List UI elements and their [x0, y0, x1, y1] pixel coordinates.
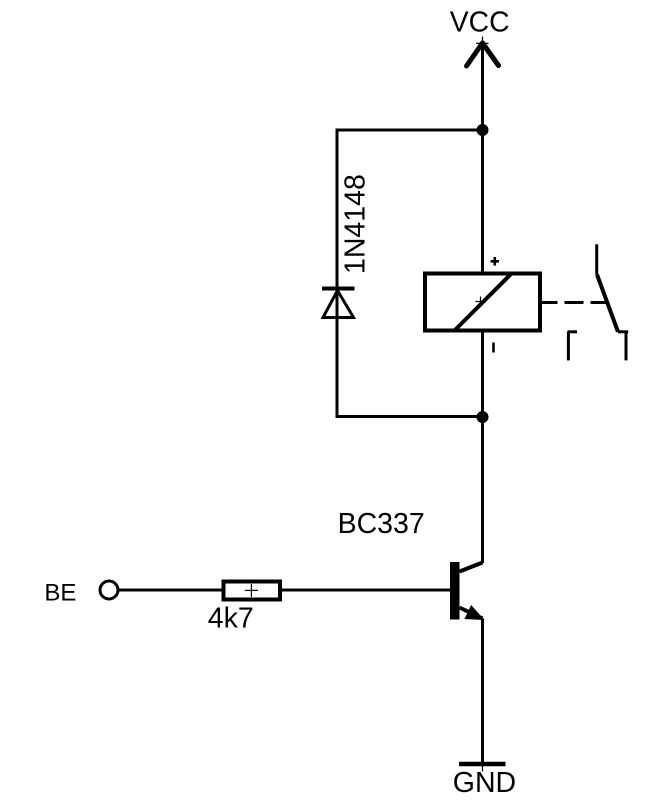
- svg-text:GND: GND: [453, 767, 516, 799]
- wire relay coil bottom to collector: [481, 331, 484, 564]
- diode D1 cathode bar: [322, 287, 355, 291]
- junction bottom node: [477, 411, 489, 423]
- wire diode bottom to lower junction: [337, 415, 483, 418]
- relay K1 coil diagonal: [454, 274, 511, 331]
- wire top junction to diode branch: [337, 129, 483, 132]
- ground symbol pin cross: [482, 757, 484, 772]
- terminal BE circle: [100, 581, 118, 599]
- svg-text:1N4148: 1N4148: [340, 174, 372, 274]
- wire diode branch vertical: [336, 129, 339, 419]
- junction top node: [477, 124, 489, 136]
- relay K1 coil box: [425, 274, 540, 331]
- switch contact NO terminal: [618, 332, 628, 361]
- wire BE terminal to resistor: [118, 589, 225, 592]
- relay K1 actuator stub: [540, 301, 558, 304]
- relay K1 minus polarity label: [492, 343, 495, 353]
- diode D1 triangle: [323, 291, 354, 318]
- switch contact NC terminal: [568, 332, 578, 361]
- resistor R1 plus marker: [245, 584, 258, 597]
- wire resistor to base: [278, 589, 450, 592]
- transistor Q1 emitter arrow: [465, 606, 483, 620]
- svg-text:BE: BE: [44, 579, 76, 606]
- relay K1 actuator dashed link: [565, 301, 607, 304]
- relay K1 plus polarity label: [491, 257, 500, 266]
- switch contact common terminal: [595, 244, 598, 274]
- svg-text:4k7: 4k7: [208, 603, 254, 635]
- svg-text:BC337: BC337: [338, 508, 425, 540]
- transistor Q1 collector lead: [460, 563, 483, 572]
- svg-text:VCC: VCC: [450, 6, 510, 38]
- switch contact blade: [597, 275, 618, 332]
- transistor Q1 emitter lead: [460, 608, 483, 619]
- resistor R1 body: [224, 582, 281, 600]
- relay K1 small plus marker: [476, 297, 486, 307]
- power symbol VCC arrow: [467, 37, 499, 67]
- transistor Q1 base bar: [450, 562, 460, 620]
- wire emitter to ground: [481, 619, 484, 765]
- wire VCC to relay coil top: [481, 43, 484, 274]
- ground symbol bar: [459, 762, 506, 767]
